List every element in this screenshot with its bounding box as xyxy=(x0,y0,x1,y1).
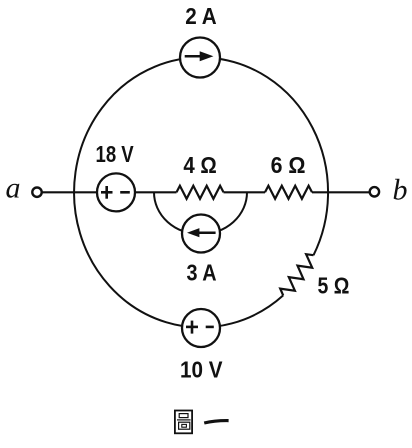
wire a to 4-ohm (passes under 18V source) xyxy=(42,191,177,193)
resistor R2 6 Ohm xyxy=(265,186,312,199)
bypass arc wire around 3A source xyxy=(154,192,247,234)
wire between 4-ohm and 6-ohm xyxy=(224,191,266,193)
main loop ellipse (gap at lower-right for 5-ohm resistor) xyxy=(74,57,328,327)
svg-text:a: a xyxy=(6,172,21,205)
caption: character TU (figure) drawn as strokes xyxy=(175,411,192,434)
current source I1 2A (arrow right, top of loop) xyxy=(180,38,220,78)
svg-text:5 Ω: 5 Ω xyxy=(318,273,350,299)
terminal a (open circle) xyxy=(32,188,41,197)
wire 6-ohm to b xyxy=(312,191,370,193)
svg-text:4 Ω: 4 Ω xyxy=(183,152,216,178)
current source I2 3A (arrow left) xyxy=(182,215,220,253)
resistor R3 5 Ohm (on lower-right of loop) xyxy=(280,254,313,295)
svg-text:6 Ω: 6 Ω xyxy=(271,152,306,178)
svg-text:b: b xyxy=(393,174,408,207)
svg-text:2 A: 2 A xyxy=(185,3,216,29)
caption: character YI (one) drawn as stroke xyxy=(204,421,228,423)
voltage source V1 18V xyxy=(97,173,135,211)
resistor R1 4 Ohm xyxy=(177,186,224,199)
svg-text:10 V: 10 V xyxy=(180,357,223,383)
voltage source V2 10V (bottom of loop) xyxy=(182,309,220,347)
terminal b (open circle) xyxy=(370,187,379,196)
svg-text:3 A: 3 A xyxy=(187,259,217,285)
svg-text:18 V: 18 V xyxy=(96,141,135,167)
